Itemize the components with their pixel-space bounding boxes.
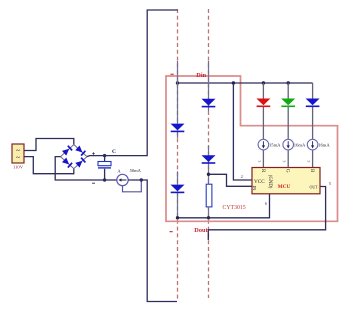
wire bridge minus output to lower rail [55, 157, 117, 180]
LED string column 1 wires [177, 61, 179, 124]
current source I3 [307, 139, 318, 150]
current source I2 [283, 139, 294, 150]
svg-text:16mA: 16mA [318, 143, 330, 148]
LED D6 blue column1 lower [171, 185, 185, 194]
junction top bus red LED [262, 81, 265, 84]
svg-text:110V: 110V [13, 165, 24, 170]
wire top bus inside module [178, 82, 313, 84]
LED DR red [256, 99, 270, 108]
LED column B wire [312, 83, 314, 168]
svg-text:IN: IN [252, 186, 257, 191]
svg-text:Din: Din [196, 72, 206, 79]
diode top-right [75, 146, 86, 157]
polarity plus mark [92, 152, 95, 155]
junction cap bottom [103, 178, 106, 181]
op IC U1 CYT3015 MCU [252, 168, 320, 194]
diode top-left [62, 145, 73, 156]
wire column2 junction to IC pin IN [209, 174, 253, 186]
resistor R1 [206, 184, 212, 207]
wire AC source top to bridge top [24, 139, 74, 151]
current source I1 [258, 139, 269, 150]
LED DB blue [306, 99, 320, 108]
wire plus rail: bridge right, up left side, to Din top [87, 10, 178, 157]
wire bottom bus GND [178, 194, 270, 218]
svg-text:CYT3015: CYT3015 [223, 205, 246, 211]
svg-text:15mA: 15mA [269, 143, 281, 148]
wire AC source bottom to bridge bottom [24, 157, 74, 174]
svg-text:G: G [285, 169, 290, 173]
svg-text:C: C [112, 149, 116, 155]
LED D7 blue column2 upper [202, 99, 216, 108]
svg-text:Dout: Dout [194, 227, 208, 234]
LED DG green [281, 99, 295, 108]
junction column2 bottom bus [207, 216, 210, 219]
LED column G wire [287, 83, 289, 168]
tick near Din [171, 73, 174, 75]
polarity minus mark [92, 182, 95, 184]
junction top bus green LED [287, 81, 290, 84]
capacitor C [98, 156, 111, 180]
AC source T1 [12, 144, 24, 163]
wire ammeter bypass loop [123, 180, 142, 192]
diode bottom-left [62, 158, 73, 169]
module boundary red box [166, 76, 338, 221]
svg-text:OUT: OUT [310, 185, 319, 190]
wire ammeter right to lower-left corner wire [128, 180, 177, 302]
wire OUT pin to Dout [208, 187, 325, 241]
svg-text:2: 2 [241, 174, 243, 179]
net Din dashed line 1 [177, 9, 179, 299]
svg-text:(GND): (GND) [267, 175, 272, 189]
LED string column 2 wires [208, 61, 210, 99]
junction top bus col1 [176, 81, 179, 84]
wire VCC drop from top bus to IC pin 2 [233, 83, 252, 180]
svg-text:~: ~ [16, 154, 20, 162]
svg-text:VCC: VCC [254, 179, 265, 185]
junction column2 to IC wire [207, 173, 210, 176]
svg-text:MCU: MCU [278, 184, 291, 190]
junction bottom bus col1 [176, 216, 179, 219]
junction top bus vcc drop [232, 81, 235, 84]
net Dout dashed line 2 [208, 9, 210, 298]
ammeter A 50mA [117, 174, 128, 185]
LED column R wire [262, 83, 264, 168]
svg-text:50mA: 50mA [130, 168, 142, 173]
LED D8 blue column2 lower [202, 155, 216, 164]
diode bottom-right [75, 157, 86, 168]
tick near Dout [170, 231, 173, 233]
bridge rectifier D1-D4 [61, 145, 88, 169]
svg-text:16mA: 16mA [294, 143, 306, 148]
junction ammeter loop [140, 178, 143, 181]
junction cap top [103, 154, 106, 157]
LED D5 blue column1 upper [171, 124, 185, 133]
